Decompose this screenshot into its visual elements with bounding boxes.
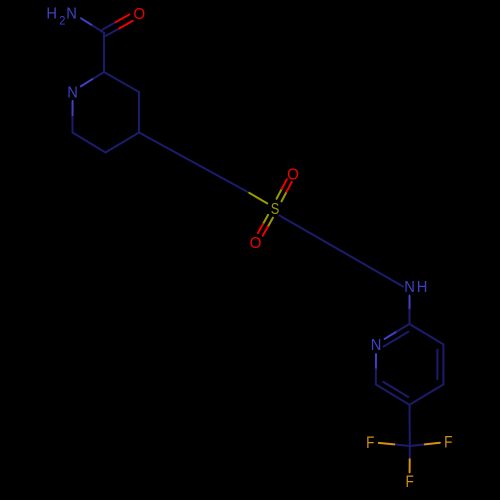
svg-text:O: O bbox=[250, 235, 262, 252]
bond N1=C2 pyridine inner bbox=[383, 332, 408, 347]
bond N-C6 piperidine bbox=[72, 101, 74, 117]
svg-text:F: F bbox=[405, 472, 413, 491]
svg-text:N: N bbox=[404, 278, 415, 296]
bond C(=O)-C2 bbox=[103, 33, 105, 72]
chain C4 to S (carbon part) bbox=[139, 133, 249, 193]
svg-text:F: F bbox=[444, 433, 452, 452]
bond C-F bottom bbox=[409, 446, 411, 459]
double bond S=O lower bbox=[263, 215, 268, 224]
svg-text:N: N bbox=[67, 84, 78, 102]
bond C2-C3 pyridine bbox=[410, 324, 444, 344]
chain S to NH (carbon part) bbox=[280, 216, 404, 287]
bond H2N-C(=O) bbox=[81, 18, 93, 25]
bond C2-N piperidine bbox=[92, 72, 104, 79]
bond N1-C6 pyridine bbox=[375, 354, 377, 369]
bond C5-C6 bbox=[73, 133, 106, 153]
double bond S=O upper bbox=[282, 192, 287, 202]
bond C3=C4 pyridine inner bbox=[436, 350, 438, 380]
svg-text:F: F bbox=[366, 434, 374, 453]
bond C5=C6 pyridine main bbox=[376, 384, 410, 404]
svg-text:O: O bbox=[133, 6, 145, 23]
bond C2-C3 bbox=[104, 72, 139, 92]
bond C3-C4 bbox=[138, 92, 140, 133]
svg-text:2: 2 bbox=[59, 15, 65, 27]
double bond C=O amide bbox=[106, 28, 120, 36]
chain to S (sulfur half) bbox=[249, 193, 267, 204]
bond NH-C2 pyridine bbox=[409, 296, 411, 310]
bond C-F left bbox=[394, 444, 410, 446]
bond C4-C5 bbox=[106, 133, 140, 153]
bond C4-C5 pyridine bbox=[410, 384, 444, 404]
svg-text:H: H bbox=[417, 278, 428, 296]
svg-text:H: H bbox=[46, 5, 57, 23]
svg-text:N: N bbox=[371, 336, 382, 354]
bond C5=C6 pyridine inner bbox=[383, 382, 408, 397]
bond C5-CF3 bbox=[409, 405, 411, 446]
bond C-F right bbox=[410, 444, 425, 446]
bond C3=C4 pyridine main bbox=[442, 344, 444, 384]
bond N1=C2 pyridine main bbox=[385, 331, 397, 339]
svg-text:S: S bbox=[271, 201, 280, 219]
svg-text:O: O bbox=[287, 166, 299, 183]
svg-text:N: N bbox=[66, 5, 77, 23]
